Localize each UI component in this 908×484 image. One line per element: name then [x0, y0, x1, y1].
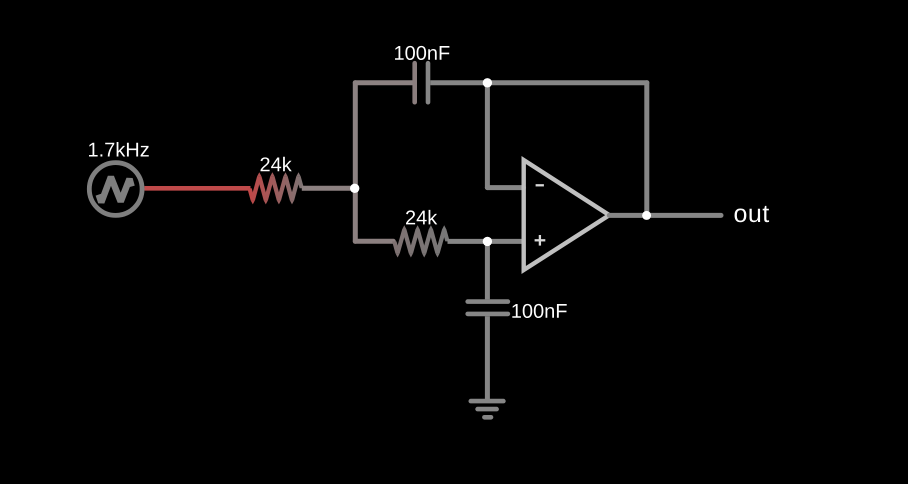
op-amp inverting marker - [536, 184, 544, 186]
node: non-inverting junction dot [483, 237, 492, 246]
wire top-left to C1 [355, 80, 412, 85]
op-amp non-inverting marker + [535, 235, 546, 246]
wire right vertical to output node [644, 83, 649, 216]
wire op-amp output [609, 213, 721, 218]
label out [735, 206, 770, 222]
voltage source V1 1.7kHz [89, 163, 142, 216]
wire input node down to R2 corner [353, 188, 358, 241]
wire to inverting input [487, 185, 523, 190]
op-amp U1 [524, 160, 610, 270]
capacitor C2 100nF [468, 302, 508, 314]
wire non-inverting node down to C2 [485, 241, 490, 299]
node: output junction dot [642, 211, 651, 220]
node: feedback junction dot [483, 78, 492, 87]
wire R1 to input node [302, 186, 356, 191]
label 1.7kHz [89, 142, 149, 156]
wire C2 to ground [485, 316, 490, 401]
label 100nF C1 [395, 46, 449, 60]
label 24k R2 [406, 210, 437, 224]
wire corner to R2 [355, 239, 393, 244]
node: input junction dot [350, 184, 359, 193]
wire C1 to feedback node [430, 80, 487, 85]
wire feedback node to top-right corner [487, 80, 646, 85]
label 24k R1 [261, 157, 292, 171]
wire non-inverting node to op-amp [487, 239, 523, 244]
label 100nF C2 [512, 304, 566, 318]
wire source to R1 (red) [145, 186, 251, 191]
resistor R1 24k [247, 172, 304, 204]
ground [471, 401, 504, 417]
wire input node up [353, 83, 358, 191]
wire R2 to non-inverting node [448, 239, 488, 244]
wire feedback node down [485, 83, 490, 188]
capacitor C1 100nF [415, 63, 428, 102]
resistor R2 24k [392, 225, 450, 257]
